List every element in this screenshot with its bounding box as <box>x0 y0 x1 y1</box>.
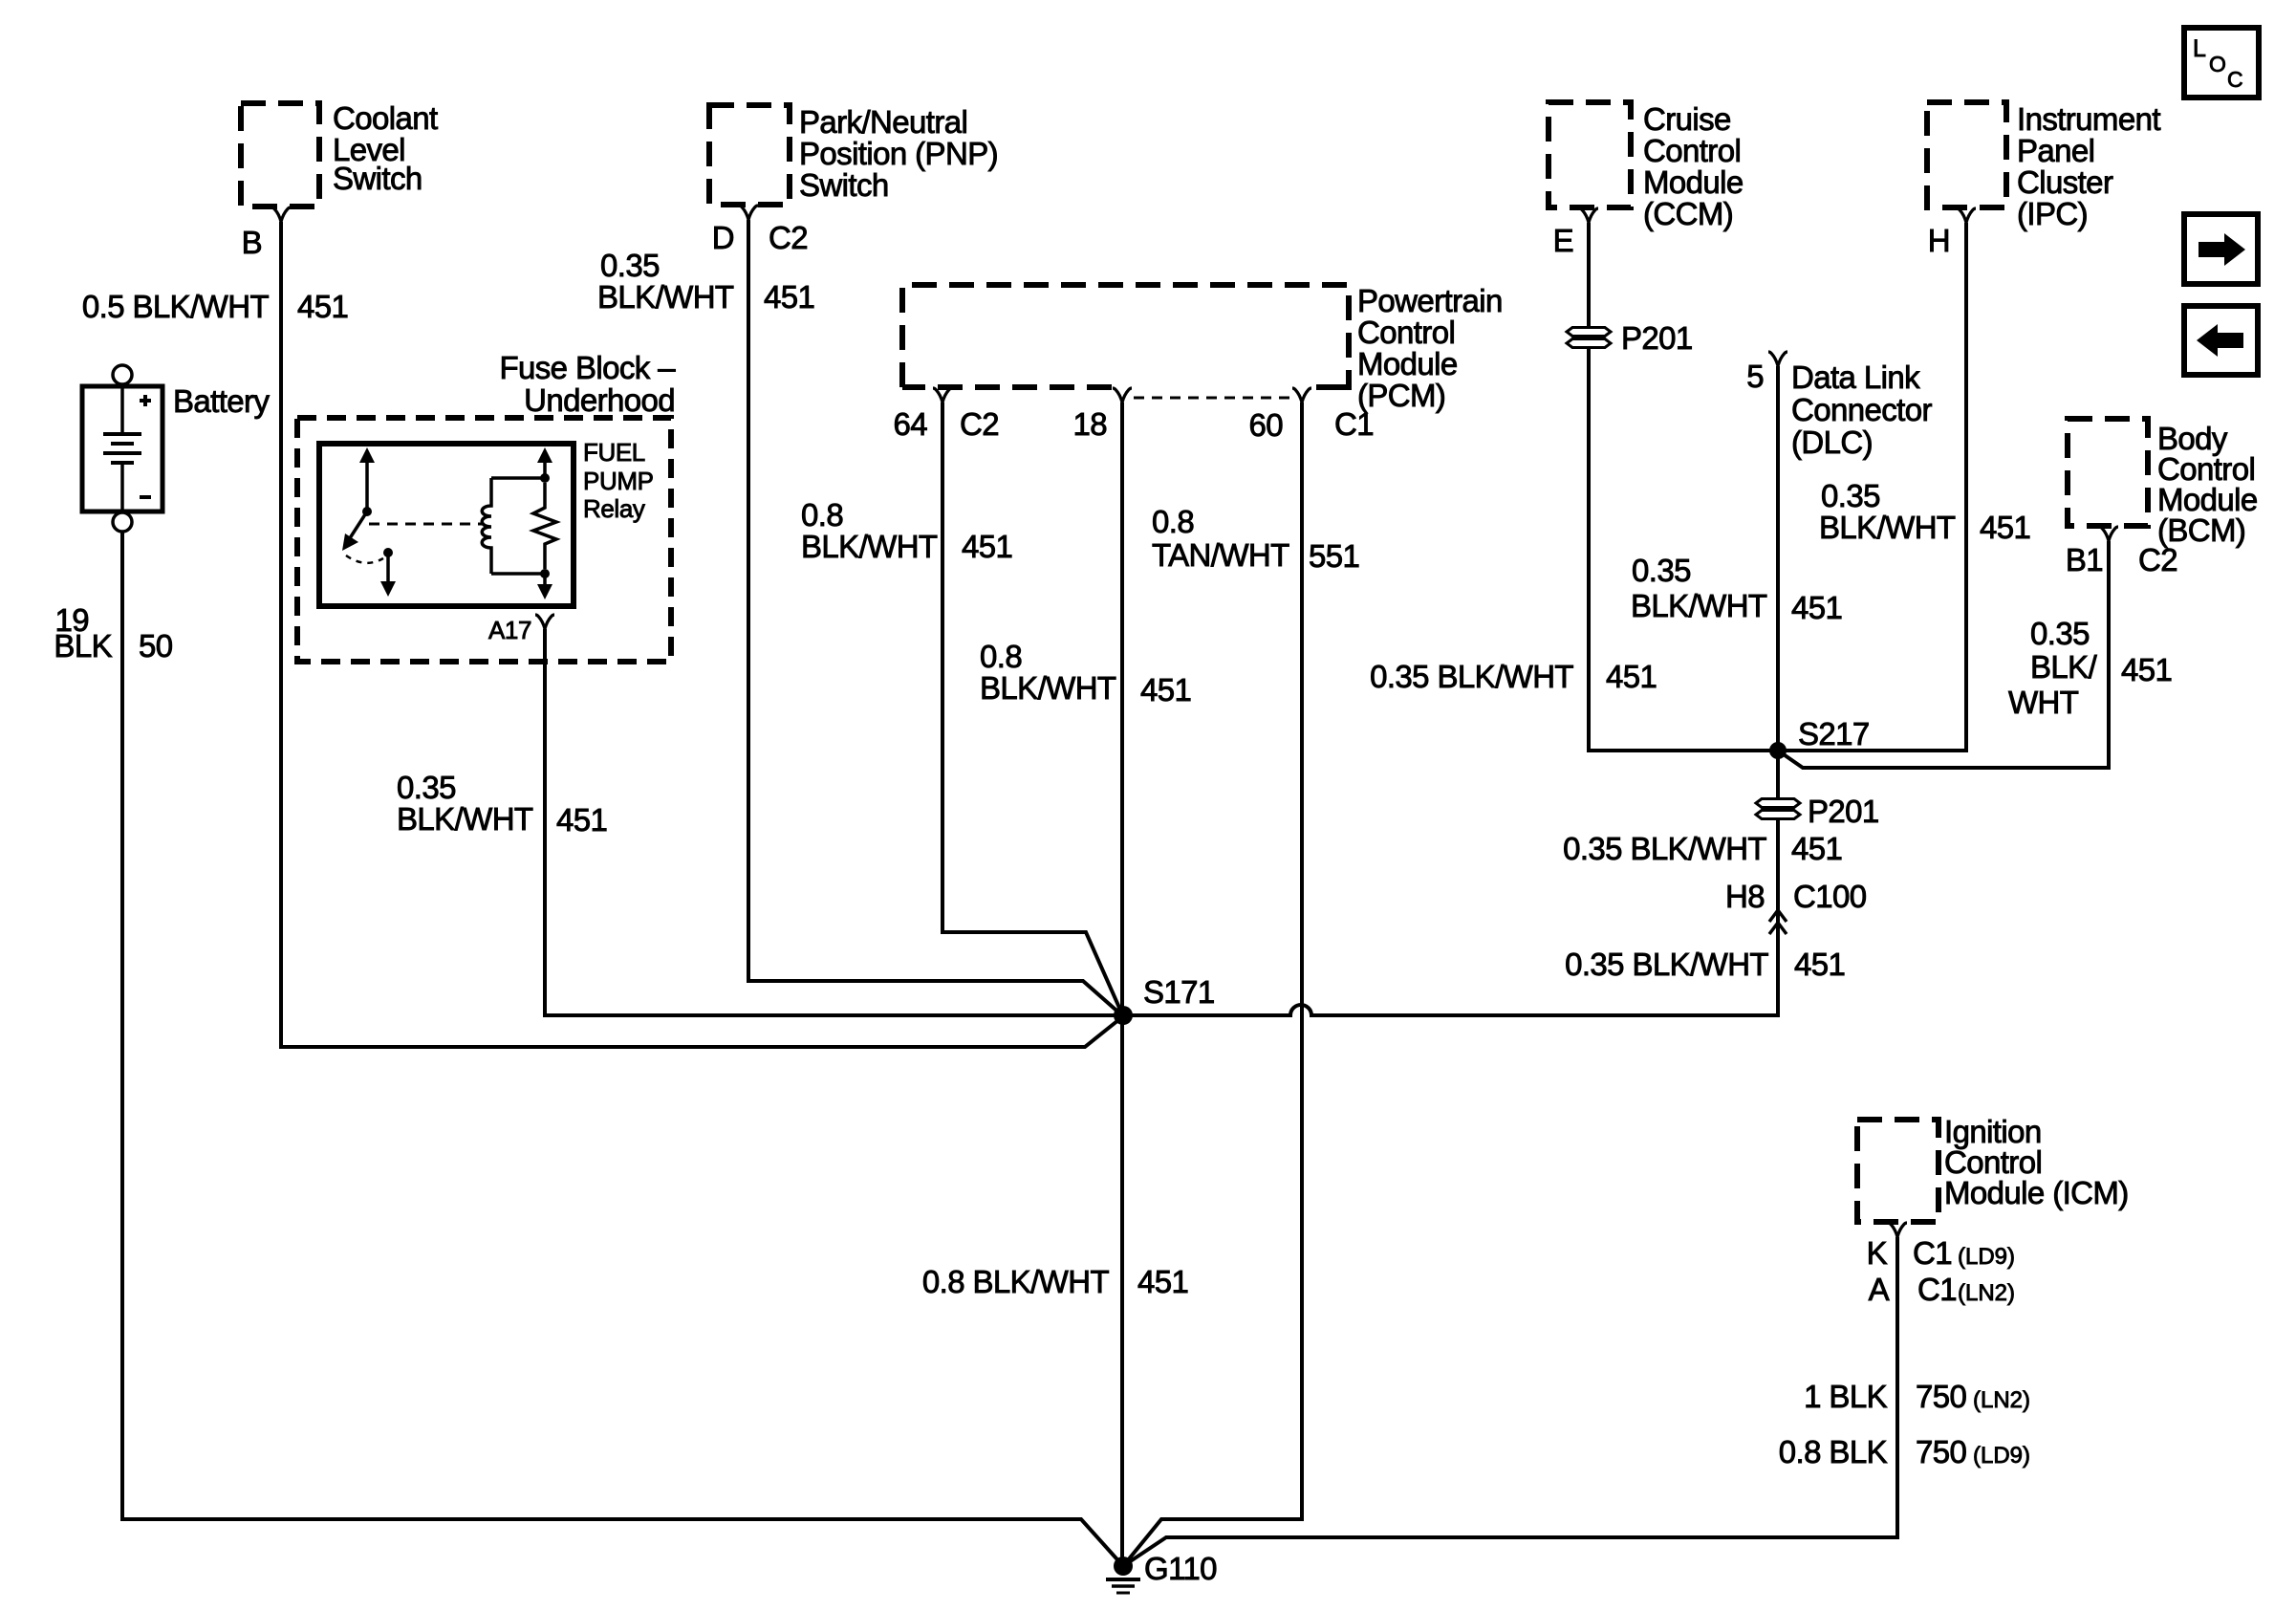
LOC reference box <box>2184 28 2259 98</box>
svg-text:(LD9): (LD9) <box>1973 1443 2030 1469</box>
svg-text:O: O <box>2209 52 2226 76</box>
svg-text:C1: C1 <box>1917 1272 1957 1307</box>
svg-text:(LN2): (LN2) <box>1958 1280 2015 1306</box>
arrow left box <box>2184 306 2258 375</box>
svg-text:C2: C2 <box>960 406 999 442</box>
svg-text:Module: Module <box>1643 164 1744 200</box>
CCM box <box>1549 102 1631 207</box>
svg-text:0.35: 0.35 <box>397 770 456 805</box>
svg-text:H8: H8 <box>1725 879 1765 914</box>
svg-text:TAN/WHT: TAN/WHT <box>1152 537 1289 573</box>
svg-text:A17: A17 <box>488 616 531 644</box>
svg-text:451: 451 <box>1140 672 1191 708</box>
IPC box <box>1927 102 2006 207</box>
fuel pump relay <box>319 444 574 606</box>
svg-text:Switch: Switch <box>333 161 422 196</box>
svg-text:(CCM): (CCM) <box>1643 196 1733 231</box>
connector K/A at ICM <box>1888 1223 1907 1237</box>
svg-text:BLK/: BLK/ <box>2030 649 2098 685</box>
svg-text:Data Link: Data Link <box>1791 359 1920 395</box>
svg-text:0.35 BLK/WHT: 0.35 BLK/WHT <box>1563 831 1766 866</box>
svg-text:C1: C1 <box>1334 406 1374 442</box>
svg-text:BLK/WHT: BLK/WHT <box>980 670 1116 706</box>
svg-text:(LD9): (LD9) <box>1958 1244 2015 1270</box>
svg-text:451: 451 <box>1137 1264 1188 1299</box>
svg-text:K: K <box>1867 1235 1888 1271</box>
connector 18 at PCM <box>1113 388 1132 403</box>
svg-text:451: 451 <box>1794 947 1845 982</box>
coolant level switch box <box>241 103 319 207</box>
svg-text:451: 451 <box>1606 659 1657 694</box>
svg-text:0.35 BLK/WHT: 0.35 BLK/WHT <box>1565 947 1768 982</box>
svg-text:C2: C2 <box>2138 542 2177 577</box>
svg-text:BLK/WHT: BLK/WHT <box>1631 588 1767 623</box>
wire: DLC pin5 down through S217, P201, C100 to S171 (hop over pin60 wire) <box>1123 366 1778 1015</box>
BCM box <box>2068 419 2148 526</box>
svg-text:P201: P201 <box>1808 794 1879 829</box>
svg-text:551: 551 <box>1309 538 1359 574</box>
svg-text:Cruise: Cruise <box>1643 101 1731 137</box>
svg-text:451: 451 <box>1791 590 1842 625</box>
svg-text:Battery: Battery <box>173 383 270 419</box>
svg-text:Position (PNP): Position (PNP) <box>799 136 998 171</box>
svg-text:L: L <box>2193 35 2206 62</box>
connector H at IPC <box>1957 208 1976 223</box>
connector 64/C2 at PCM <box>933 388 952 403</box>
svg-text:50: 50 <box>139 628 173 664</box>
svg-text:H: H <box>1928 223 1950 258</box>
pass-through grommet P201 (below S217) <box>1756 799 1800 808</box>
svg-text:0.35: 0.35 <box>1632 553 1691 588</box>
svg-text:0.35 BLK/WHT: 0.35 BLK/WHT <box>1370 659 1573 694</box>
svg-text:0.35: 0.35 <box>1821 478 1880 513</box>
park/neutral position switch box <box>709 105 790 205</box>
svg-text:B1: B1 <box>2066 542 2103 577</box>
svg-text:5: 5 <box>1746 359 1764 394</box>
wire: PCM pin 60 TAN/WHT to G110 <box>1123 403 1302 1566</box>
svg-text:G110: G110 <box>1144 1551 1217 1586</box>
svg-text:18: 18 <box>1072 406 1107 442</box>
svg-text:Control: Control <box>1357 315 1455 350</box>
svg-text:(IPC): (IPC) <box>2017 196 2088 231</box>
connector D/C2 at PNP switch <box>739 206 758 220</box>
svg-text:Park/Neutral: Park/Neutral <box>799 104 967 140</box>
svg-text:Underhood: Underhood <box>524 382 675 418</box>
svg-text:A: A <box>1869 1272 1890 1307</box>
wire: ICM K/A to G110 <box>1123 1237 1897 1566</box>
svg-text:451: 451 <box>556 802 607 838</box>
splice S217 <box>1769 742 1787 759</box>
wire: coolant level switch B to S171 <box>281 222 1123 1047</box>
svg-text:Control: Control <box>1643 133 1741 168</box>
wire: IPC H to S217 <box>1778 223 1966 751</box>
svg-text:451: 451 <box>962 529 1012 564</box>
svg-text:BLK/WHT: BLK/WHT <box>397 801 533 837</box>
wire: PNP switch D to S171 <box>748 220 1123 1016</box>
svg-text:Cluster: Cluster <box>2017 164 2113 200</box>
svg-text:S171: S171 <box>1143 974 1215 1010</box>
svg-text:Fuse Block –: Fuse Block – <box>499 350 676 385</box>
svg-text:Module (ICM): Module (ICM) <box>1944 1175 2129 1210</box>
svg-text:Panel: Panel <box>2017 133 2094 168</box>
svg-text:0.35: 0.35 <box>600 248 660 283</box>
PCM box <box>902 285 1349 398</box>
svg-text:Coolant: Coolant <box>333 100 438 136</box>
svg-text:750: 750 <box>1916 1379 1967 1414</box>
wire: fuel pump relay A17 to S171 <box>545 629 1123 1015</box>
svg-text:0.35: 0.35 <box>2030 616 2090 651</box>
svg-text:Instrument: Instrument <box>2017 101 2160 137</box>
svg-text:P201: P201 <box>1621 320 1693 356</box>
svg-text:(DLC): (DLC) <box>1791 425 1873 460</box>
svg-text:0.8 BLK: 0.8 BLK <box>1779 1434 1888 1469</box>
battery <box>82 365 162 532</box>
svg-text:0.8: 0.8 <box>801 497 843 533</box>
svg-text:Switch: Switch <box>799 167 889 203</box>
svg-text:FUEL: FUEL <box>583 438 645 467</box>
svg-text:(LN2): (LN2) <box>1973 1387 2030 1413</box>
arrow right box <box>2184 214 2258 284</box>
svg-text:PUMP: PUMP <box>583 467 654 495</box>
svg-text:WHT: WHT <box>2008 685 2079 720</box>
svg-text:451: 451 <box>1980 510 2030 545</box>
svg-text:BLK/WHT: BLK/WHT <box>597 279 734 315</box>
ground G110 <box>1106 1557 1140 1593</box>
svg-text:60: 60 <box>1248 407 1283 443</box>
connector 60/C1 at PCM <box>1292 388 1311 403</box>
svg-text:BLK: BLK <box>54 628 112 664</box>
svg-text:E: E <box>1553 223 1573 258</box>
svg-text:451: 451 <box>297 289 348 324</box>
pass-through grommet P201 (CCM wire) <box>1567 328 1611 337</box>
connector B1/C2 at BCM <box>2099 527 2118 541</box>
connector E at CCM <box>1579 208 1598 223</box>
svg-text:S217: S217 <box>1798 716 1870 751</box>
svg-text:451: 451 <box>1791 831 1842 866</box>
connector B at coolant level switch <box>271 207 291 222</box>
connector 5 at DLC <box>1768 352 1787 366</box>
wire: PCM pin 18 through S171 to G110 <box>1120 403 1124 1566</box>
svg-text:C100: C100 <box>1793 879 1867 914</box>
wire: PCM pin 64 to S171 <box>942 403 1123 1016</box>
svg-text:C2: C2 <box>769 220 808 255</box>
svg-text:Connector: Connector <box>1791 392 1932 427</box>
ICM box <box>1857 1120 1939 1222</box>
svg-text:0.8: 0.8 <box>1152 504 1194 539</box>
connector C100 H8 chevrons <box>1769 910 1787 934</box>
splice S171 <box>1114 1006 1133 1025</box>
wire: CCM E to S217 <box>1589 223 1778 751</box>
svg-text:750: 750 <box>1916 1434 1967 1469</box>
svg-text:D: D <box>712 220 734 255</box>
svg-text:Relay: Relay <box>583 494 645 523</box>
svg-text:451: 451 <box>2121 652 2172 687</box>
svg-text:0.8: 0.8 <box>980 639 1022 674</box>
svg-text:BLK/WHT: BLK/WHT <box>1819 510 1956 545</box>
svg-text:0.8 BLK/WHT: 0.8 BLK/WHT <box>922 1264 1110 1299</box>
svg-text:451: 451 <box>764 279 814 315</box>
svg-text:B: B <box>242 225 262 260</box>
svg-text:1 BLK: 1 BLK <box>1804 1379 1887 1414</box>
svg-text:Powertrain: Powertrain <box>1357 283 1503 318</box>
wire: BCM B1 to S217 <box>1778 541 2109 768</box>
svg-text:64: 64 <box>893 406 927 442</box>
svg-text:Module: Module <box>1357 346 1458 381</box>
svg-text:C1: C1 <box>1913 1235 1952 1271</box>
fuse block underhood box <box>297 418 671 662</box>
svg-text:C: C <box>2227 67 2243 92</box>
wire: battery negative to G110 <box>122 532 1123 1566</box>
svg-text:0.5 BLK/WHT: 0.5 BLK/WHT <box>82 289 270 324</box>
connector A17 at fuse block <box>535 615 554 629</box>
svg-text:BLK/WHT: BLK/WHT <box>801 529 938 564</box>
